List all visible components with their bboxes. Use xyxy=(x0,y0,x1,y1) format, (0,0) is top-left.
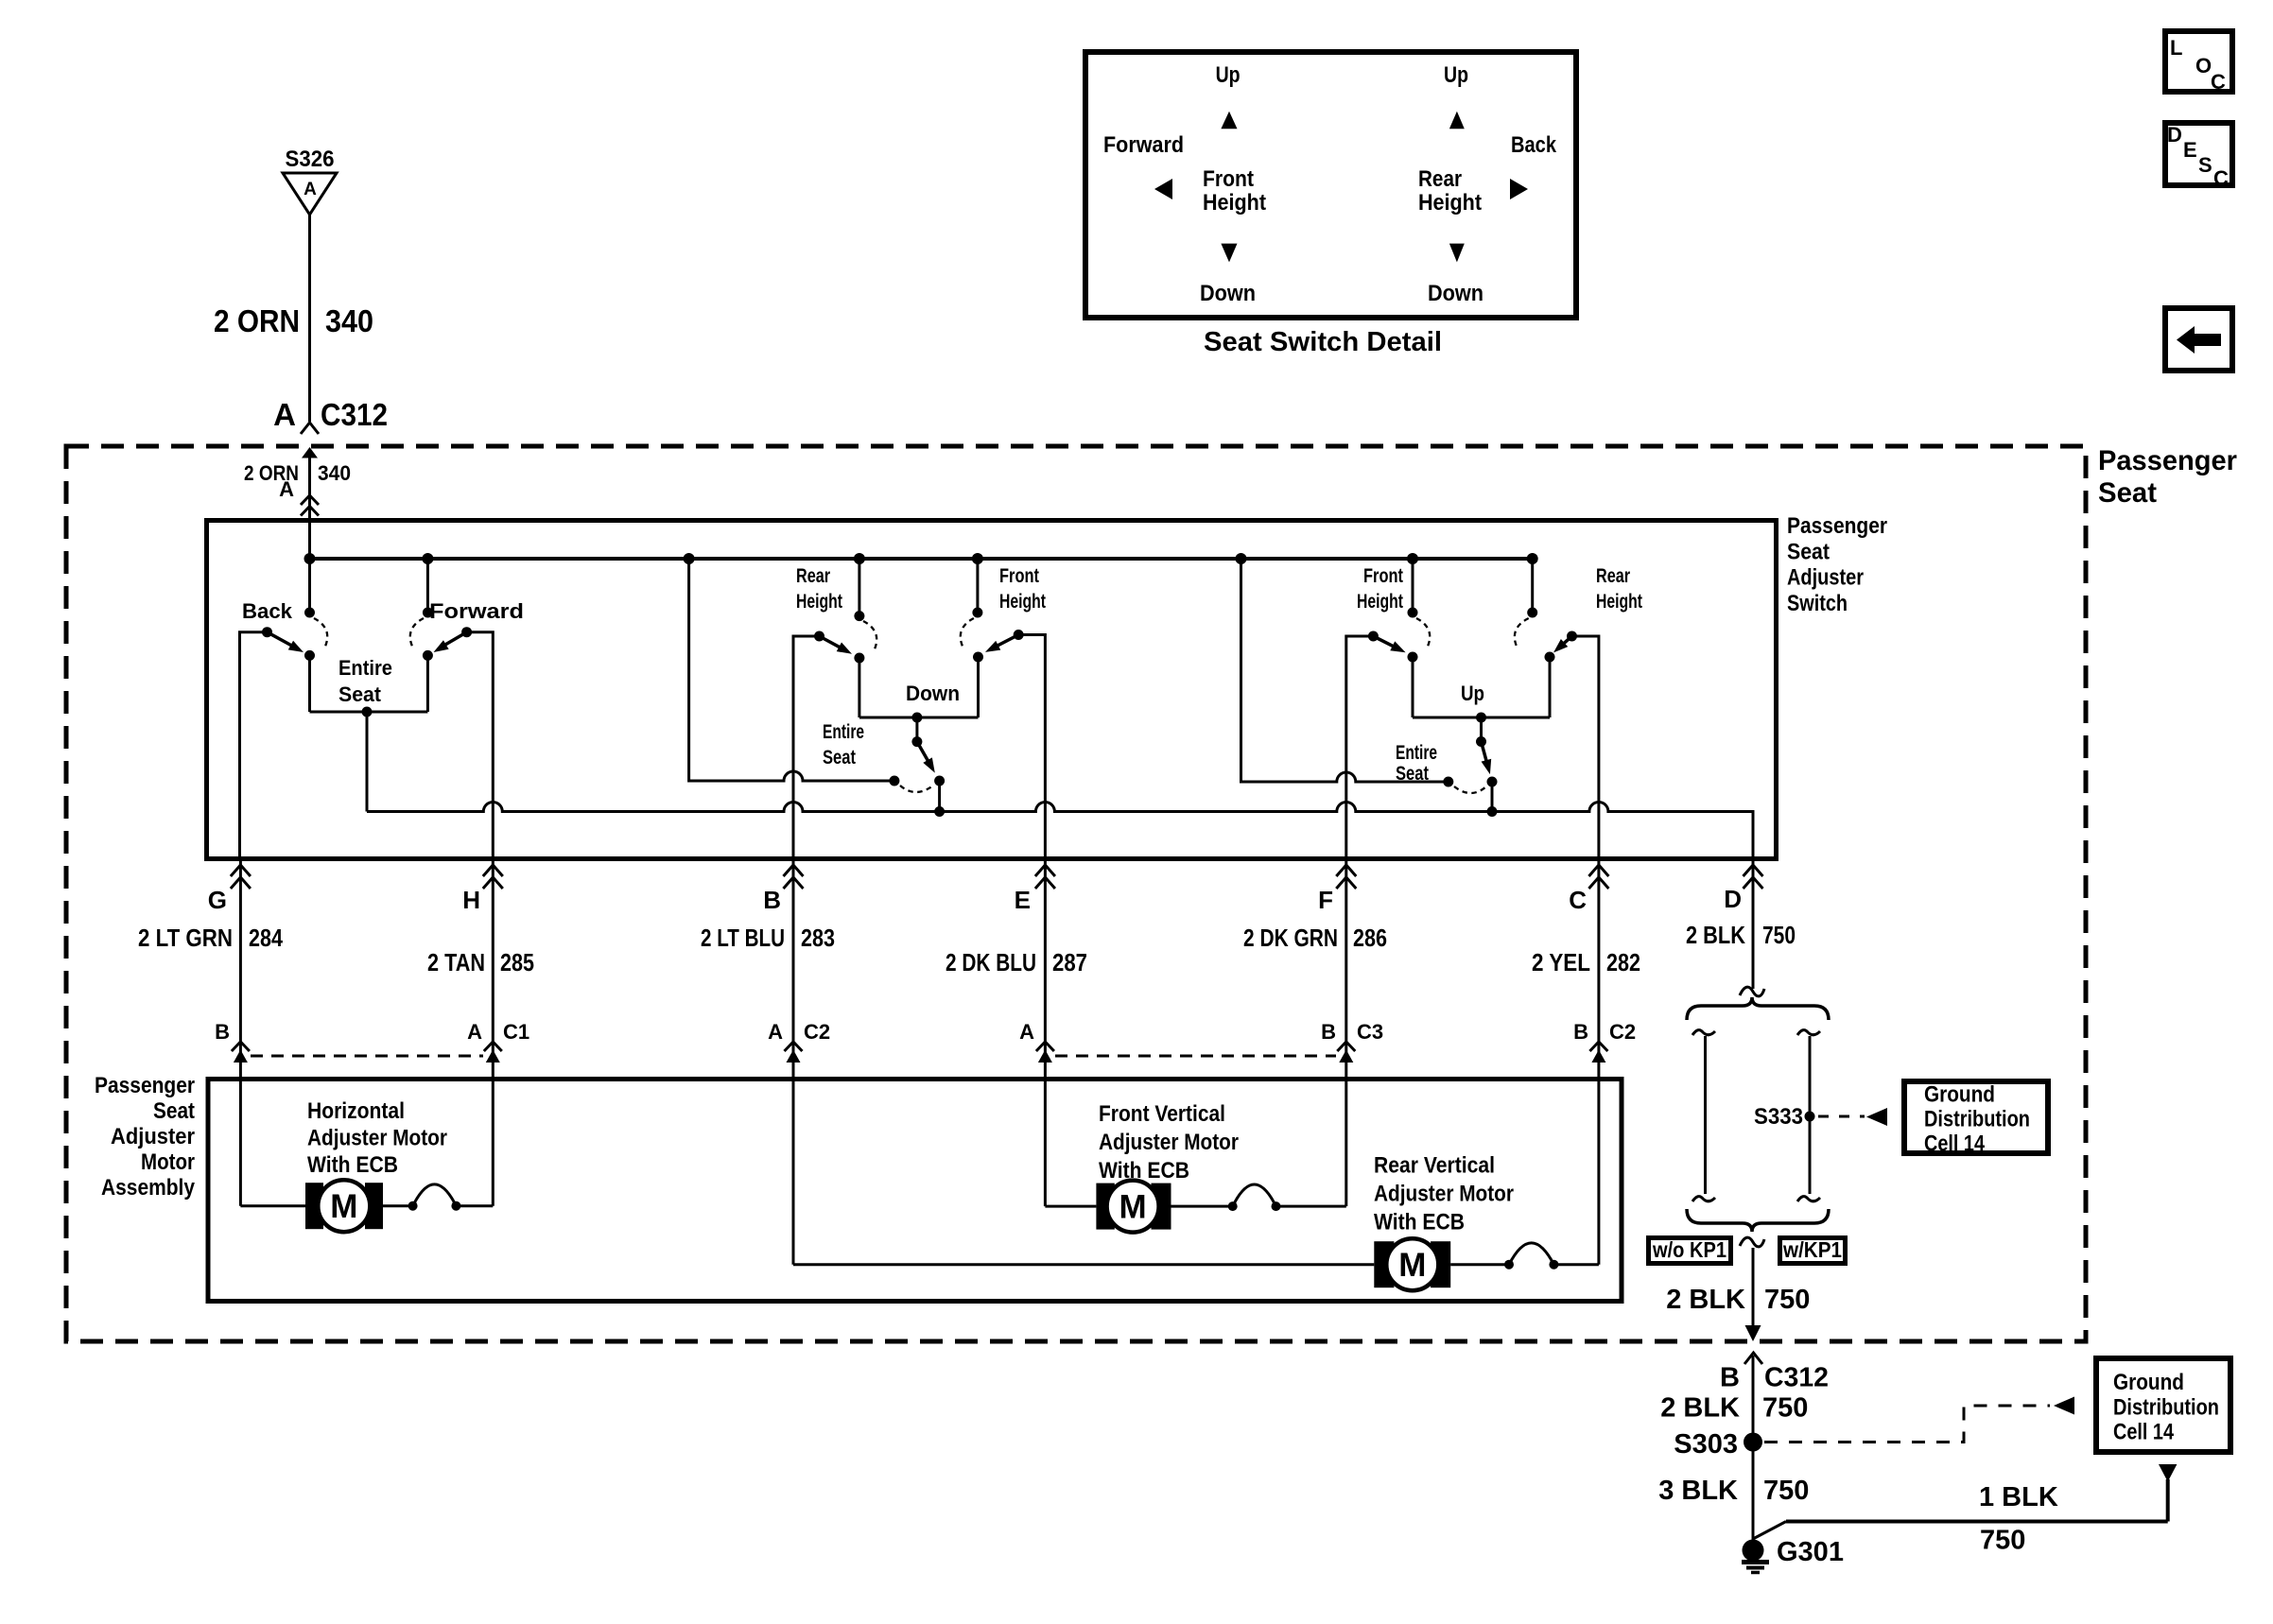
svg-text:Height: Height xyxy=(1418,190,1482,216)
svg-text:E: E xyxy=(2183,138,2197,162)
Seat Switch Detail box xyxy=(1085,52,1576,318)
svg-text:282: 282 xyxy=(1606,948,1640,976)
Front Height label (g2) xyxy=(999,565,1046,613)
connector C312 pin B (below harness) xyxy=(1720,1353,1829,1541)
svg-text:283: 283 xyxy=(801,924,835,952)
svg-text:2 BLK: 2 BLK xyxy=(1660,1393,1740,1424)
Up common bar (rear vertical motor) xyxy=(1413,657,1550,723)
motor M3 (rear vertical adjuster motor) xyxy=(1374,1238,1450,1290)
wire label 2 DK GRN 286 xyxy=(1243,924,1387,952)
svg-text:With ECB: With ECB xyxy=(1374,1210,1465,1235)
Entire Seat wiper arc (g2) xyxy=(900,786,933,792)
svg-text:Height: Height xyxy=(1596,591,1642,613)
svg-text:Front Vertical: Front Vertical xyxy=(1099,1101,1225,1127)
label Passenger Seat Adjuster Switch xyxy=(1787,513,1887,616)
svg-text:B: B xyxy=(215,1020,230,1044)
Entire Seat label (g3) xyxy=(1396,742,1437,785)
svg-text:1 BLK: 1 BLK xyxy=(1979,1482,2058,1512)
Back switch arm xyxy=(262,627,306,657)
svg-text:C312: C312 xyxy=(321,397,388,432)
w/KP1 tag box xyxy=(1780,1237,1846,1264)
wire 1 BLK 750 to ground distribution xyxy=(1753,1464,2177,1539)
svg-text:Cell 14: Cell 14 xyxy=(2113,1420,2175,1445)
svg-text:Height: Height xyxy=(999,591,1046,613)
dashed reference S333 to ground distribution xyxy=(1818,1115,1865,1118)
wire 2 ORN 340 from S326 to C312 xyxy=(308,215,311,422)
wire label 2 ORN 340 xyxy=(214,303,373,338)
wire Front Height arm to pin F xyxy=(1346,636,1374,1206)
ECB circuit breaker M3 xyxy=(1450,1243,1599,1270)
svg-text:C2: C2 xyxy=(804,1020,830,1044)
svg-text:2 LT GRN: 2 LT GRN xyxy=(138,924,233,952)
svg-text:D: D xyxy=(1724,885,1742,913)
Rear Height label xyxy=(796,565,842,613)
svg-text:Seat: Seat xyxy=(823,747,856,769)
Forward switch arm xyxy=(431,627,472,657)
w/o KP1 tag box xyxy=(1649,1237,1731,1264)
ECB circuit breaker M2 xyxy=(1171,1184,1346,1211)
svg-text:Forward: Forward xyxy=(1103,132,1184,158)
detail right arrow xyxy=(1510,179,1528,199)
svg-text:2 BLK: 2 BLK xyxy=(1686,921,1745,949)
reference arrowhead xyxy=(1866,1108,1887,1126)
svg-text:S333: S333 xyxy=(1754,1104,1803,1130)
Rear Height switch arm (g3) xyxy=(1550,631,1577,657)
svg-text:Height: Height xyxy=(1203,190,1266,216)
svg-text:Cell 14: Cell 14 xyxy=(1924,1132,1986,1157)
harness option top brace xyxy=(1687,997,1829,1020)
svg-text:284: 284 xyxy=(249,924,283,952)
svg-text:Seat: Seat xyxy=(338,682,382,706)
svg-text:A: A xyxy=(768,1020,783,1044)
svg-text:750: 750 xyxy=(1764,1285,1810,1315)
inline connector squiggle on D wire xyxy=(1740,987,1764,996)
svg-text:750: 750 xyxy=(1980,1526,2025,1556)
motor M1 label Horizontal Adjuster Motor With ECB xyxy=(307,1098,447,1178)
Ground Distribution Cell 14 box (upper) xyxy=(1904,1081,2048,1157)
svg-text:w/o KP1: w/o KP1 xyxy=(1652,1237,1726,1262)
wire label 2 TAN 285 xyxy=(427,948,534,976)
svg-text:O: O xyxy=(2195,54,2212,78)
svg-text:Height: Height xyxy=(1357,591,1403,613)
Front Height wiper travel arc (g2) xyxy=(961,618,974,648)
svg-text:B: B xyxy=(1321,1020,1336,1044)
group3 feed branch wire xyxy=(1241,559,1454,787)
wire Rear Height arm to pin C xyxy=(1572,636,1599,1265)
svg-text:Horizontal: Horizontal xyxy=(307,1098,405,1124)
Forward wiper travel arc xyxy=(410,618,424,648)
wire to motor M2 left brush xyxy=(1045,1205,1096,1208)
Rear Height switch arm xyxy=(814,631,855,659)
wire 2 BLK 750 down to C312 xyxy=(1745,1248,1761,1341)
svg-text:C2: C2 xyxy=(1609,1020,1636,1044)
svg-text:G301: G301 xyxy=(1777,1537,1844,1567)
svg-text:E: E xyxy=(1015,886,1031,914)
svg-text:Distribution: Distribution xyxy=(2113,1395,2219,1421)
svg-text:C: C xyxy=(1569,886,1587,914)
svg-text:Adjuster: Adjuster xyxy=(111,1124,195,1149)
Back common contact xyxy=(304,650,315,712)
svg-text:A: A xyxy=(304,180,317,199)
ground G301 xyxy=(1742,1537,1844,1573)
pin chevrons G H B E F C D xyxy=(231,865,1763,889)
detail Rear Height label xyxy=(1418,166,1482,216)
Entire Seat common bar (horizontal motor) xyxy=(310,707,428,812)
svg-text:C: C xyxy=(2213,166,2229,190)
wire label 2 LT BLU 283 xyxy=(701,924,835,952)
motor M2 (front vertical adjuster motor) xyxy=(1096,1181,1171,1233)
svg-text:2 DK GRN: 2 DK GRN xyxy=(1243,924,1338,952)
svg-text:M: M xyxy=(1398,1247,1426,1284)
svg-text:Adjuster Motor: Adjuster Motor xyxy=(1099,1130,1239,1155)
Rear Height wiper travel arc xyxy=(863,621,876,651)
svg-text:F: F xyxy=(1318,886,1333,914)
svg-text:M: M xyxy=(330,1188,357,1225)
svg-text:Seat: Seat xyxy=(153,1098,195,1124)
Forward fixed contact xyxy=(423,559,433,618)
LOC corner tag xyxy=(2165,31,2232,94)
label Passenger Seat Adjuster Motor Assembly xyxy=(95,1073,196,1201)
detail up arrow (right) xyxy=(1449,112,1465,130)
Passenger Seat Adjuster Switch box xyxy=(207,521,1777,859)
wire Rear Height arm to pin B xyxy=(793,636,820,1265)
svg-text:Ground: Ground xyxy=(1924,1082,1995,1108)
detail down arrow (left) xyxy=(1221,244,1237,263)
connector C312 pin A (above harness) xyxy=(273,397,388,434)
svg-text:Passenger: Passenger xyxy=(95,1073,195,1098)
svg-text:Assembly: Assembly xyxy=(101,1175,196,1201)
Back fixed contact xyxy=(304,559,315,618)
svg-text:Front: Front xyxy=(999,565,1039,587)
connector pin labels row xyxy=(215,1020,1636,1044)
Rear Height fixed contact (g3) xyxy=(1527,559,1537,618)
svg-text:B: B xyxy=(763,886,781,914)
Front Height switch arm (g2) xyxy=(982,630,1023,657)
svg-text:750: 750 xyxy=(1762,921,1796,949)
svg-text:Rear: Rear xyxy=(1418,166,1462,192)
svg-text:Adjuster: Adjuster xyxy=(1787,565,1864,591)
svg-text:Entire: Entire xyxy=(338,656,392,680)
svg-text:L: L xyxy=(2170,36,2182,60)
Entire Seat arm (g2) xyxy=(911,717,939,775)
switch return wire to pin D (with bridges) xyxy=(367,803,1753,860)
DESC corner tag xyxy=(2165,123,2232,190)
svg-text:Up: Up xyxy=(1461,682,1484,705)
Front Height common contact (g2) xyxy=(973,652,983,663)
Front Height common contact (g3) xyxy=(1408,652,1418,718)
wire Forward arm to pin H xyxy=(467,632,494,1206)
wire Front Height arm to pin E xyxy=(1018,635,1045,1207)
wire label 2 DK BLU 287 xyxy=(946,948,1087,976)
svg-text:With ECB: With ECB xyxy=(307,1152,398,1178)
Front Height switch arm (g3) xyxy=(1368,631,1408,658)
svg-text:Adjuster Motor: Adjuster Motor xyxy=(1374,1182,1514,1207)
motor M1 (horizontal adjuster motor) xyxy=(305,1180,383,1232)
svg-text:Seat Switch Detail: Seat Switch Detail xyxy=(1204,327,1442,357)
svg-text:Down: Down xyxy=(1200,281,1256,306)
w/KP1 option wire xyxy=(1797,1030,1820,1201)
detail Front Height label xyxy=(1203,166,1266,216)
Rear Height fixed contact xyxy=(854,559,864,621)
Rear Height common contact xyxy=(854,653,864,718)
Ground Distribution Cell 14 box (lower) xyxy=(2096,1358,2230,1452)
wire label 2 YEL 282 xyxy=(1532,948,1640,976)
svg-text:340: 340 xyxy=(318,461,351,485)
pin letters xyxy=(208,885,1742,914)
svg-text:750: 750 xyxy=(1763,1476,1809,1506)
Rear Height wiper travel arc (g3) xyxy=(1515,618,1529,648)
detail up arrow (left) xyxy=(1221,112,1237,130)
svg-text:3 BLK: 3 BLK xyxy=(1658,1476,1738,1506)
svg-text:C312: C312 xyxy=(1764,1363,1829,1393)
svg-text:S303: S303 xyxy=(1674,1429,1738,1460)
Front Height label (g3) xyxy=(1357,565,1403,613)
Front Height fixed contact (g2) xyxy=(972,559,982,618)
svg-text:Passenger: Passenger xyxy=(2098,445,2237,476)
wire pin D below box xyxy=(1752,859,1755,989)
svg-text:With ECB: With ECB xyxy=(1099,1158,1189,1183)
svg-text:2 BLK: 2 BLK xyxy=(1666,1285,1745,1315)
back arrow corner tag xyxy=(2165,308,2232,371)
Front Height fixed contact (g3) xyxy=(1408,559,1418,618)
wire G below box xyxy=(239,859,242,1206)
svg-text:Rear: Rear xyxy=(1596,565,1630,587)
Front Height wiper travel arc (g3) xyxy=(1416,618,1430,648)
connector C2/C3 dashed body xyxy=(1055,1055,1336,1058)
svg-text:Back: Back xyxy=(1511,132,1557,158)
bus wire xyxy=(310,557,1533,561)
motor connector chevrons and arrows xyxy=(232,1042,1608,1063)
splice S333 xyxy=(1754,1104,1815,1130)
wire label 2 ORN 340 (inner) xyxy=(244,461,351,485)
svg-text:A: A xyxy=(273,397,296,432)
Forward common contact xyxy=(423,650,433,712)
svg-text:Front: Front xyxy=(1363,565,1403,587)
svg-text:Down: Down xyxy=(1428,281,1484,306)
svg-text:w/KP1: w/KP1 xyxy=(1782,1237,1842,1262)
splice S303 xyxy=(1674,1429,1762,1460)
motor M2 label Front Vertical Adjuster Motor With ECB xyxy=(1099,1101,1239,1183)
bus junction dots xyxy=(304,553,1538,564)
w/o KP1 option wire xyxy=(1692,1030,1715,1201)
svg-text:Height: Height xyxy=(796,591,842,613)
svg-text:Entire: Entire xyxy=(1396,742,1437,764)
svg-text:Rear Vertical: Rear Vertical xyxy=(1374,1153,1495,1179)
svg-text:G: G xyxy=(208,886,227,914)
svg-text:S326: S326 xyxy=(286,147,335,172)
svg-text:340: 340 xyxy=(325,303,373,338)
group2 feed branch wire xyxy=(689,559,900,786)
wire label 2 BLK 750 (mid) xyxy=(1666,1285,1810,1315)
svg-text:B: B xyxy=(1573,1020,1588,1044)
svg-text:2 ORN: 2 ORN xyxy=(214,303,300,338)
wire Back arm to pin G xyxy=(240,632,268,859)
svg-text:2 DK BLU: 2 DK BLU xyxy=(946,948,1036,976)
wire label 3 BLK 750 xyxy=(1658,1476,1809,1506)
svg-text:A: A xyxy=(1019,1020,1034,1044)
svg-text:Down: Down xyxy=(906,682,960,705)
wire label 1 BLK 750 xyxy=(1979,1482,2058,1556)
svg-text:B: B xyxy=(1720,1363,1740,1393)
detail down arrow (right) xyxy=(1449,244,1465,263)
Entire Seat common contact (g3) xyxy=(1487,777,1498,818)
label Passenger Seat xyxy=(2098,445,2237,509)
Rear Height common contact (g3) xyxy=(1545,652,1555,663)
svg-text:Entire: Entire xyxy=(823,721,864,743)
svg-text:C3: C3 xyxy=(1357,1020,1383,1044)
svg-text:M: M xyxy=(1119,1188,1147,1225)
svg-text:285: 285 xyxy=(500,948,534,976)
svg-text:2 LT BLU: 2 LT BLU xyxy=(701,924,785,952)
svg-text:Up: Up xyxy=(1216,62,1241,88)
svg-text:C: C xyxy=(2211,70,2226,94)
svg-text:Up: Up xyxy=(1444,62,1468,88)
motor M3 label Rear Vertical Adjuster Motor With ECB xyxy=(1374,1153,1514,1235)
wire entry arrow into harness xyxy=(302,447,318,559)
svg-text:287: 287 xyxy=(1052,948,1087,976)
splice S326 triangle symbol xyxy=(283,173,337,215)
svg-text:2 YEL: 2 YEL xyxy=(1532,948,1590,976)
svg-text:Adjuster Motor: Adjuster Motor xyxy=(307,1126,447,1151)
svg-text:750: 750 xyxy=(1762,1393,1808,1424)
svg-text:Rear: Rear xyxy=(796,565,830,587)
svg-text:S: S xyxy=(2198,153,2212,177)
svg-text:Passenger: Passenger xyxy=(1787,513,1887,539)
Back wiper travel arc xyxy=(314,618,327,648)
Entire Seat common contact (g2) xyxy=(934,776,945,818)
Passenger Seat harness dashed box xyxy=(66,446,2086,1341)
wire to motor M3 left brush xyxy=(793,1263,1374,1266)
Down common bar (front vertical motor) xyxy=(859,657,979,723)
svg-text:A: A xyxy=(467,1020,482,1044)
svg-text:Seat: Seat xyxy=(1787,539,1830,564)
svg-text:C1: C1 xyxy=(503,1020,529,1044)
Entire Seat wiper arc (g3) xyxy=(1454,786,1486,793)
connector chevrons into switch xyxy=(301,495,319,516)
ECB circuit breaker M1 xyxy=(383,1184,493,1211)
inline connector squiggle below braces xyxy=(1740,1237,1764,1247)
svg-text:Switch: Switch xyxy=(1787,591,1848,616)
wire to motor M1 left brush xyxy=(240,1204,305,1207)
connector C1 dashed body xyxy=(251,1055,483,1058)
dashed reference S303 to ground distribution xyxy=(1764,1406,2050,1443)
svg-text:Seat: Seat xyxy=(1396,763,1429,785)
svg-text:H: H xyxy=(462,886,480,914)
svg-text:Motor: Motor xyxy=(141,1149,195,1175)
Passenger Seat Adjuster Motor Assembly box xyxy=(208,1080,1622,1302)
Entire Seat arm (g3) xyxy=(1476,717,1495,776)
svg-text:Seat: Seat xyxy=(2098,477,2157,509)
svg-text:D: D xyxy=(2167,123,2182,147)
wire label 2 BLK 750 (bottom) xyxy=(1660,1393,1808,1424)
wire label 2 LT GRN 284 xyxy=(138,924,283,952)
svg-text:286: 286 xyxy=(1353,924,1387,952)
svg-text:A: A xyxy=(279,477,294,501)
Rear Height label (g3) xyxy=(1596,565,1642,613)
wire label 2 BLK 750 (pin D) xyxy=(1686,921,1796,949)
svg-text:Front: Front xyxy=(1203,166,1254,192)
Entire Seat label (g2) xyxy=(823,721,864,769)
detail left arrow xyxy=(1154,179,1172,199)
Entire Seat label (horizontal) xyxy=(338,656,392,706)
svg-text:Back: Back xyxy=(242,599,293,623)
svg-text:Distribution: Distribution xyxy=(1924,1107,2030,1132)
reference arrowhead (lower) xyxy=(2054,1397,2074,1415)
svg-text:Ground: Ground xyxy=(2113,1370,2184,1395)
harness option bottom brace xyxy=(1687,1209,1829,1232)
svg-text:Forward: Forward xyxy=(429,599,524,623)
svg-text:2 TAN: 2 TAN xyxy=(427,948,485,976)
